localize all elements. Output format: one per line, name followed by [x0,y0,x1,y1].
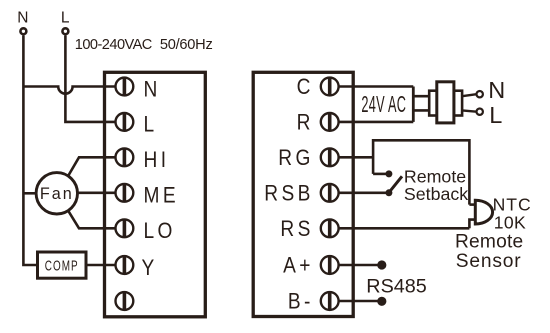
svg-text:N: N [144,77,161,102]
wire fan stub [23,192,36,195]
svg-text:L: L [489,102,502,128]
input terminal L (open circle) [62,28,68,34]
slot screw R [328,114,332,130]
screw ME [116,184,134,202]
wire C to 24VAC [330,85,414,88]
slot screw LO [123,220,127,236]
wire RS to sensor [330,227,470,230]
svg-text:N: N [17,9,28,26]
wire fan to ME [78,192,126,195]
svg-text:ME: ME [144,183,179,208]
svg-text:A+: A+ [283,253,314,278]
slot screw HI [123,149,127,165]
wire N feed vertical [23,35,37,265]
wire 24VAC stub lower [413,109,429,112]
svg-text:10K: 10K [494,212,526,232]
svg-text:100-240VAC: 100-240VAC [75,37,152,53]
svg-text:R: R [297,110,314,135]
switch lever [390,176,403,192]
svg-text:L: L [144,112,158,137]
svg-text:Fan: Fan [40,185,74,203]
svg-text:NTC: NTC [493,194,532,214]
svg-text:50/60Hz: 50/60Hz [160,37,213,53]
svg-text:B-: B- [288,289,314,314]
wire R to 24VAC [330,121,414,124]
svg-text:RG: RG [278,146,313,171]
input terminal N (open circle) [20,28,26,34]
slot screw B- [328,293,332,309]
slot screw ME [123,185,127,201]
wire plug to N [462,94,476,96]
wire COMP to Y [86,264,125,267]
screw terminals left block: N L HI ME LO Y blank [116,78,134,310]
box 24V AC right edge [412,87,415,122]
wire sensor top pin [469,203,475,206]
screw RSB [321,184,339,202]
slot screw L [123,114,127,130]
wire sensor bottom pin [469,220,475,229]
svg-text:24V AC: 24V AC [361,91,406,117]
screw spare [116,292,134,310]
svg-text:Remote: Remote [455,232,523,253]
node lower contact [385,189,392,196]
wire upper switch contact [373,173,389,176]
wire B- [330,300,378,303]
output terminal N (open circle) [477,91,483,97]
svg-text:N: N [488,77,505,103]
terminal block TB2 (right) [253,72,353,316]
slot screw Y [123,257,127,273]
slot screw N [123,78,127,94]
wire 24VAC stub upper [413,95,429,98]
screw LO [116,219,134,237]
transformer plug left shoulder [429,91,437,116]
wire switch common rail [373,140,469,204]
screw R [321,113,339,131]
svg-text:Y: Y [142,255,158,280]
fan motor M1 [36,173,77,214]
wire fan to HI [68,157,125,176]
wire plug to L [462,110,476,111]
svg-text:Sensor: Sensor [456,251,522,272]
transformer plug body [437,82,454,123]
svg-text:HI: HI [144,148,170,173]
node B- (RS485) [377,297,386,306]
slot screw spare [123,293,127,309]
slot screw RSB [328,185,332,201]
terminal block TB1 (left) [105,72,206,316]
wire RG to switch [330,156,373,159]
wire A+ [330,264,378,267]
screw B- [321,292,339,310]
screw Y [116,256,134,274]
svg-text:COMP: COMP [45,258,79,274]
screw HI [116,148,134,166]
svg-text:Setback: Setback [404,184,468,204]
node A+ (RS485) [377,260,386,269]
screw N [116,78,134,96]
compressor COMP [38,252,87,278]
screw terminals right block: C R RG RSB RS A+ B- [321,78,339,310]
wire fan to LO [68,211,125,229]
screw C [321,78,339,96]
svg-text:RS: RS [280,217,313,242]
svg-text:L: L [61,9,70,26]
wire RSB to switch [330,192,389,195]
svg-text:RSB: RSB [264,181,314,206]
svg-text:LO: LO [144,219,176,244]
screw RS [321,219,339,237]
svg-text:RS485: RS485 [366,275,426,297]
screw RG [321,148,339,166]
slot screw A+ [328,257,332,273]
thermistor NTC probe [475,200,492,224]
wire L feed vertical [65,35,125,122]
switch S1 remote setback contacts [385,170,392,196]
node upper contact [385,170,392,177]
slot screw RG [328,149,332,165]
screw A+ [321,256,339,274]
slot screw RS [328,220,332,236]
wire N branch to terminal N with hop [23,87,125,94]
screw L [116,113,134,131]
svg-text:C: C [297,75,314,100]
output terminal L (open circle) [477,109,483,115]
slot screw C [328,78,332,94]
transformer plug right shoulder [454,91,462,116]
